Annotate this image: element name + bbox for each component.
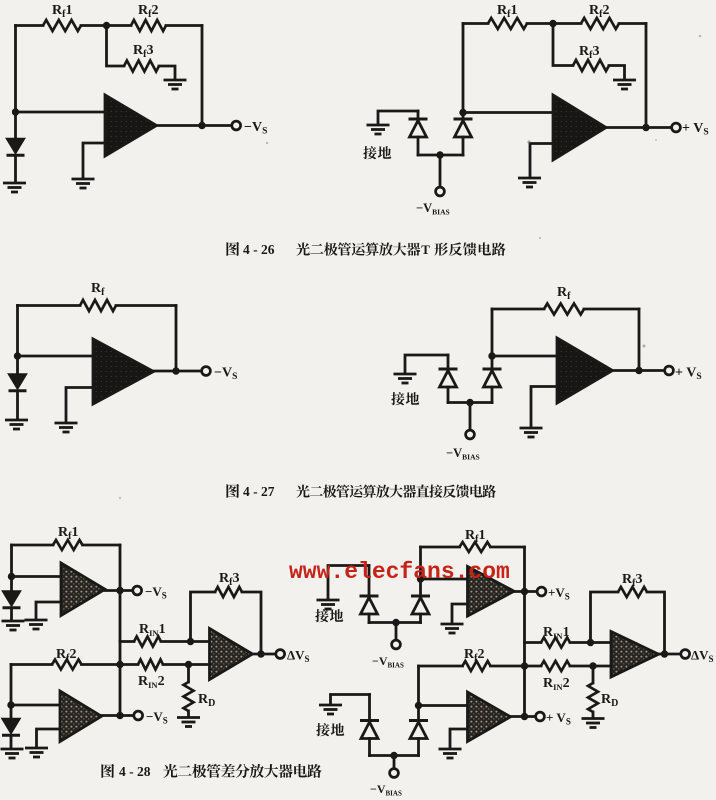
wire left vertical MR — [491, 309, 494, 356]
wire noninverting 1 BR — [452, 604, 468, 622]
op-amp U8 — [468, 567, 515, 617]
wire RIN1 row BL — [120, 640, 134, 643]
ground bias 2 BR — [319, 705, 342, 714]
node output ML — [172, 367, 179, 374]
node output 1 BR — [521, 588, 528, 595]
terminal +Vs MR — [665, 366, 674, 375]
wire top feedback row TL — [16, 24, 44, 27]
ground noninverting ML — [55, 423, 78, 432]
op-amp U3 — [93, 339, 154, 404]
terminal +Vs 1 BR — [537, 587, 546, 596]
photodiode D2 left — [417, 111, 420, 119]
node vertical crossing BL — [116, 661, 123, 668]
label jiedi 1 BR — [315, 609, 328, 622]
wire noninverting TL — [83, 143, 105, 177]
scan specks (decorative) — [527, 140, 530, 143]
photodiode D11 — [368, 695, 371, 721]
wire inverting input ML — [18, 355, 94, 358]
wire noninverting TR — [530, 144, 553, 177]
ground noninverting 2 BL — [25, 748, 48, 757]
resistor Rf1 — [43, 20, 81, 31]
resistor RD BL — [187, 665, 190, 683]
wire top feedback row TR — [463, 22, 488, 25]
node output 2 BL — [116, 712, 123, 719]
resistor Rf2 BL — [52, 660, 82, 670]
svg-text:www.elecfans.com: www.elecfans.com — [289, 559, 510, 585]
ground photodiode 1 BL — [2, 621, 25, 630]
photodiode D10 — [419, 579, 422, 596]
terminal -Vs 1 BL — [133, 586, 142, 595]
wire right vertical TR — [645, 24, 648, 128]
resistor Rf3 — [124, 61, 159, 72]
resistor Rf1 BL — [53, 540, 83, 550]
resistor RD BR — [592, 666, 595, 683]
wire noninverting 1 BL — [36, 602, 61, 618]
ground noninverting 1 BL — [25, 620, 48, 629]
wire inverting input 1 BL — [12, 575, 62, 578]
wire Rf3 branch TR — [553, 24, 573, 66]
node inverting input 2 BR — [415, 702, 422, 709]
wire top feedback row ML — [18, 304, 81, 307]
wire inverting input 2 BR — [419, 704, 468, 707]
caption figure 4-28 — [101, 764, 114, 778]
label jiedi MR — [391, 392, 404, 405]
terminal -VBIAS 1 BR — [392, 640, 401, 649]
wire top feedback row MR — [492, 308, 544, 311]
node output TL — [198, 122, 205, 129]
wire inverting input TR — [463, 111, 553, 114]
wire bias ground arm 1 BR — [328, 566, 369, 599]
wire inverting input 1 BR — [421, 578, 468, 581]
resistor Rf2 right — [581, 18, 619, 29]
op-amp U6 — [60, 691, 102, 742]
ground bias 1 BR — [317, 600, 340, 609]
wire bias ground arm MR — [405, 355, 448, 372]
wire left vertical 2 BR — [417, 666, 420, 706]
photodiode D3 right — [462, 113, 465, 120]
node output TR — [642, 124, 649, 131]
ground bias TR — [367, 125, 390, 134]
node inverting input ML — [14, 352, 21, 359]
wire noninverting MR — [531, 387, 557, 427]
ground photodiode TL — [3, 183, 26, 192]
ground Rf3 TR — [613, 80, 636, 89]
wire left vertical TL — [14, 26, 17, 113]
resistor RIN2 BR — [541, 661, 570, 671]
wire noninverting 2 BR — [450, 729, 468, 747]
wire to VBIAS 1 BR — [395, 623, 398, 641]
terminal -Vs TL — [232, 121, 241, 130]
wire output 3 BR — [659, 653, 682, 656]
ground photodiode ML — [5, 420, 28, 429]
node RIN1/Rf3 BR — [587, 639, 594, 646]
terminal -VBIAS 2 BR — [390, 769, 399, 778]
wire output TR — [606, 126, 672, 129]
wire noninverting 2 BL — [37, 729, 61, 746]
ground noninverting TR — [518, 178, 541, 187]
resistor RIN2 BL — [138, 660, 163, 670]
wire right vertical ML — [175, 306, 178, 372]
resistor Rf1 right — [488, 18, 527, 29]
wire left vertical 2 BL — [10, 665, 13, 706]
wire right vertical MR — [638, 309, 641, 371]
node bias 2 BR — [390, 752, 397, 759]
photodiode D12 — [417, 706, 420, 721]
resistor Rf ML — [80, 300, 116, 311]
op-amp U5 — [61, 563, 105, 616]
wire right vertical TL — [201, 26, 204, 126]
wire left vertical 1 BR — [419, 547, 422, 579]
resistor Rf3 right — [573, 60, 609, 71]
wire output MR — [613, 369, 665, 372]
caption figure 4-27 — [226, 484, 239, 498]
resistor Rf3 BR — [618, 587, 647, 597]
wire output 2 BR — [511, 715, 536, 718]
node vertical crossing BR — [521, 662, 528, 669]
resistor Rf MR — [544, 304, 584, 315]
label jiedi TR — [363, 146, 376, 159]
terminal -Vs ML — [202, 367, 211, 376]
photodiode D4 — [16, 356, 19, 374]
node bias MR — [466, 399, 473, 406]
photodiode D8 — [10, 705, 13, 719]
photodiode D5 left — [447, 355, 450, 369]
resistor RIN1 BL — [134, 637, 161, 647]
node inverting input 1 BL — [8, 573, 15, 580]
node bias TR — [436, 151, 443, 158]
svg-text:4 - 28: 4 - 28 — [119, 764, 151, 779]
wire to VBIAS terminal MR — [469, 403, 472, 431]
terminal +Vs 2 BR — [536, 712, 545, 721]
resistor Rf3 BL — [215, 587, 242, 597]
wire noninverting ML — [66, 388, 93, 422]
wire to VBIAS 2 BR — [393, 756, 396, 769]
wire output 1 BL — [105, 589, 133, 592]
caption figure 4-26 — [226, 242, 239, 256]
svg-text:T: T — [421, 242, 430, 257]
photodiode D6 right — [491, 356, 494, 369]
wire left vertical 1 BL — [10, 545, 13, 577]
op-amp U10 output stage BR — [611, 632, 659, 678]
ground noninverting 1 BR — [441, 624, 464, 633]
wire output ML — [154, 370, 202, 373]
wire long right vertical BL — [119, 545, 122, 716]
node inverting input TR — [459, 109, 466, 116]
svg-text:4 - 26: 4 - 26 — [243, 242, 275, 257]
photodiode D1 — [14, 112, 17, 139]
resistor Rf2 — [131, 20, 166, 31]
op-amp U4 — [557, 338, 613, 403]
wire bias bottom row MR — [448, 401, 492, 404]
ground photodiode 2 BL — [1, 749, 24, 758]
terminal dVs BL — [276, 650, 285, 659]
wire left vertical ML — [16, 306, 19, 357]
terminal -VBIAS MR — [466, 430, 475, 439]
node junction Rf1/Rf2 — [103, 22, 110, 29]
ground Rf3 TL — [164, 80, 187, 89]
wire RIN1 row BR — [525, 641, 542, 644]
ground noninverting TL — [72, 179, 95, 188]
wire Rf1 feedback row BL — [12, 544, 54, 547]
ground RD BL — [177, 718, 200, 727]
wire Rf2/RIN2 row BR — [419, 665, 463, 668]
wire output 3 BL — [253, 653, 277, 656]
terminal dVs BR — [681, 650, 690, 659]
wire Rf2/RIN2 row BL — [11, 663, 52, 666]
wire Rf3 branch BR — [591, 592, 619, 643]
wire long right vertical BR — [523, 547, 526, 717]
ground noninverting 2 BR — [439, 749, 462, 758]
node output 3 BR — [661, 650, 668, 657]
wire bias ground arm TR — [378, 111, 418, 123]
node RIN1/Rf3 BL — [187, 638, 194, 645]
wire Rf3 branch — [107, 26, 125, 67]
resistor Rf1 BR — [460, 542, 491, 552]
wire inverting input 2 BL — [11, 704, 60, 707]
node inverting input 2 BL — [7, 701, 14, 708]
node inverting input TL — [12, 108, 19, 115]
resistor Rf2 BR — [463, 661, 491, 671]
node bias 1 BR — [392, 619, 399, 626]
node output 2 BR — [521, 713, 528, 720]
node inverting input MR — [488, 352, 495, 359]
node junction Rf1/Rf2 TR — [549, 20, 556, 27]
wire output 2 BL — [102, 714, 135, 717]
wire bias bottom row 1 BR — [369, 621, 421, 624]
op-amp U1 — [105, 95, 157, 156]
wire output 1 BR — [514, 590, 537, 593]
wire Rf1 feedback row BR — [421, 546, 460, 549]
node output 1 BL — [116, 587, 123, 594]
wire to VBIAS terminal TR — [439, 155, 442, 187]
node inverting input 1 BR — [417, 575, 424, 582]
wire inverting input MR — [492, 355, 557, 358]
wire left vertical TR — [462, 24, 465, 113]
ground noninverting MR — [520, 428, 543, 437]
op-amp U2 — [553, 95, 606, 160]
terminal -Vs 2 BL — [134, 711, 143, 720]
wire inverting input TL — [16, 111, 106, 114]
svg-text:4 - 27: 4 - 27 — [243, 484, 275, 499]
op-amp U9 — [468, 692, 511, 742]
terminal -VBIAS TR — [436, 187, 445, 196]
node RD junction BR — [589, 662, 596, 669]
ground bias MR — [394, 374, 417, 383]
wire bias bottom row TR — [418, 154, 463, 157]
op-amp U7 output stage BL — [210, 629, 253, 680]
photodiode D9 — [368, 566, 371, 597]
label jiedi 2 BR — [316, 723, 329, 736]
node output 3 BL — [257, 650, 264, 657]
wire output TL — [157, 124, 233, 127]
resistor RIN1 BR — [541, 638, 570, 648]
node RD junction BL — [185, 661, 192, 668]
terminal +Vs TR — [672, 123, 681, 132]
wire bias ground arm 2 BR — [331, 695, 370, 704]
wire Rf3 branch BL — [191, 592, 216, 642]
ground RD BR — [582, 719, 605, 728]
photodiode D7 — [10, 577, 13, 592]
node output MR — [635, 367, 642, 374]
wire bias bottom row 2 BR — [370, 754, 419, 757]
